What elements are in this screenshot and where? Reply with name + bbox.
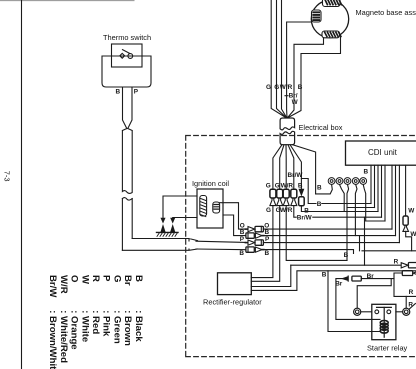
run B from chain5 branch to CDI (301, 179, 316, 204)
run Br/W from chain4 to CDI (294, 206, 296, 218)
svg-text:: Orange: : Orange (69, 310, 80, 349)
svg-text:G: G (266, 182, 271, 189)
svg-text:Starter relay: Starter relay (367, 343, 408, 352)
Br chain left arrow (342, 277, 348, 281)
svg-text:P: P (134, 89, 139, 96)
svg-text:Br: Br (122, 275, 133, 286)
ground bar with hatching (157, 231, 179, 233)
W fuse at right edge (403, 216, 408, 225)
svg-text:B: B (298, 84, 303, 91)
Br chain fuse (352, 276, 361, 281)
P row connector: arrow and cylinder (245, 242, 247, 244)
svg-text:W: W (292, 99, 299, 106)
svg-text:G: G (111, 275, 122, 282)
wire from Br/W run down to R line (364, 217, 366, 265)
svg-text:R: R (90, 275, 101, 282)
starter relay box (372, 304, 396, 339)
P row wire to CDI (263, 242, 399, 244)
magneto bottom coil (322, 31, 340, 38)
svg-text:B: B (265, 229, 270, 236)
R fuse 2 right arrow (413, 271, 416, 276)
R fuse 2 (402, 271, 412, 276)
fuse chain 3 W/R : cylinder (283, 189, 289, 198)
svg-text:B: B (322, 272, 327, 279)
CDI output verticals (370, 165, 372, 203)
magneto wire 5 from bottom coil (288, 38, 324, 118)
link wire B row down to lower run (359, 236, 361, 251)
rectifier wire 3 (251, 265, 290, 286)
B row 2 wire to starter relay terminal (264, 250, 354, 254)
magneto top coil (323, 0, 341, 7)
svg-text:Br/W: Br/W (297, 215, 313, 222)
svg-text:B: B (116, 89, 121, 96)
B row connector: cylinder then arrow (246, 233, 254, 238)
fuse chain 2 bullet (277, 198, 283, 206)
ignition coil primary winding (200, 196, 207, 217)
svg-text:P: P (101, 275, 112, 282)
ignition coil secondary winding (213, 202, 220, 213)
bullet 5 stub down (363, 185, 366, 222)
wire P from cable to connector row (196, 241, 246, 242)
svg-text:: Red: : Red (90, 310, 101, 334)
R line to right edge connector (291, 264, 401, 266)
cable lower segment torn top (122, 198, 132, 201)
magneto wire 6 from bottom right (288, 35, 341, 118)
magneto wire 4 from left coil (287, 22, 312, 118)
svg-text:Magneto base assembly: Magneto base assembly (356, 8, 416, 17)
electrical box dashed boundary (186, 136, 416, 357)
B row 2 connector: cylinder then arrow (246, 247, 254, 252)
relay terminal 1 (ring) (354, 308, 361, 315)
electrical box connector upper half (280, 118, 295, 130)
svg-text:R: R (394, 258, 399, 265)
thermo switch blade (123, 50, 130, 54)
svg-text:B: B (364, 169, 369, 176)
svg-text:O: O (69, 275, 80, 283)
relay contact right (387, 310, 391, 314)
relay coil (380, 321, 388, 334)
svg-text:: White/Red: : White/Red (58, 310, 69, 363)
magneto wire 1 (271, 0, 286, 118)
rectifier wire 1 (251, 206, 273, 278)
terminal 1 stub to relay box (361, 311, 372, 313)
run from bullet5 to CDI (366, 220, 385, 222)
B row wire to CDI (264, 235, 396, 237)
run from bullet3 to CDI (347, 207, 375, 209)
svg-text:B: B (344, 252, 349, 259)
svg-text:W: W (79, 275, 90, 285)
svg-text:: Pink: : Pink (101, 310, 112, 337)
terminal 2 stub to relay box (396, 311, 403, 313)
Br wire left to relay (336, 279, 380, 320)
svg-text:W/R: W/R (280, 84, 293, 91)
svg-text:Br/W: Br/W (47, 275, 58, 298)
svg-text:: Black: : Black (133, 310, 144, 342)
page left border line (21, 0, 23, 369)
ground arrow 2 down (171, 218, 174, 222)
svg-text:P: P (240, 236, 245, 243)
svg-text:P: P (265, 236, 270, 243)
electrical box connector lower half (280, 131, 295, 144)
svg-text:7-3: 7-3 (3, 171, 12, 182)
relay terminal 2 (ring) (403, 308, 410, 315)
magneto wire 2 (277, 0, 287, 118)
svg-text:B: B (240, 229, 245, 236)
chain 5 cylinder (299, 197, 305, 206)
svg-text:B: B (298, 182, 303, 189)
svg-text:: Brown/White: : Brown/White (47, 310, 58, 369)
chain 5 Br/W : arrow (299, 189, 304, 195)
fuse chain 4 bullet (291, 198, 297, 206)
bullet terminal circles row (328, 178, 366, 185)
wire B from connector to bullet 1 (316, 185, 333, 194)
wire B from cable to connector row (196, 248, 246, 251)
terminal 2 blade (409, 304, 416, 310)
thermo switch inner box (112, 44, 143, 67)
relay terminal 2 stub up (405, 296, 407, 308)
svg-text:B: B (265, 250, 270, 257)
fuse chain 2 G : cylinder (277, 189, 283, 198)
svg-text:B: B (317, 201, 322, 208)
svg-text:B: B (133, 275, 144, 282)
svg-text:W/R: W/R (58, 275, 69, 294)
run B from chain5 bottom to CDI (301, 206, 378, 212)
wire P from thermo switch (128, 87, 132, 129)
svg-text:Br/W: Br/W (288, 172, 304, 179)
Br wire right to R fuse 2 (361, 273, 402, 279)
bullet 3 stub down long vertical (347, 185, 349, 261)
wire B from thermo switch (123, 87, 127, 129)
relay contact bar (377, 306, 392, 308)
O row wire to CDI (263, 228, 392, 230)
fuse chain 1 bullet (270, 198, 276, 206)
W/R chain down and across to R connector (286, 206, 347, 261)
svg-text:G: G (266, 207, 271, 214)
svg-text:: White: : White (79, 310, 90, 342)
wire label Br/W with tick (285, 95, 288, 97)
rectifier wire 4 to relay circuit (251, 271, 416, 291)
ground wire 2 from ignition coil (173, 217, 197, 220)
magneto left coil (312, 10, 322, 22)
svg-text:Thermo switch: Thermo switch (103, 33, 151, 42)
ignition coil box (197, 189, 223, 228)
svg-text:G: G (274, 84, 279, 91)
wire B from ignition coil to B connector (223, 215, 246, 236)
magneto wire 3 (282, 0, 287, 118)
svg-text:Electrical box: Electrical box (299, 123, 343, 132)
svg-text:Ignition coil: Ignition coil (192, 179, 229, 188)
svg-text:G: G (275, 182, 280, 189)
relay contact left (375, 310, 379, 314)
bullet 4 stub down (355, 185, 357, 236)
svg-text:: Green: : Green (111, 310, 122, 344)
fuse chain 1 G : cylinder (270, 189, 276, 198)
thermo switch contact right (128, 54, 133, 59)
fan wires from connector to fuse chains (273, 145, 282, 190)
svg-text:W/R: W/R (281, 182, 294, 189)
svg-text:W: W (410, 231, 416, 238)
O row connector: arrow and cylinder (245, 228, 247, 230)
svg-text:B: B (239, 250, 244, 257)
branch down to relay coil (328, 271, 380, 332)
svg-text:Rectifier-regulator: Rectifier-regulator (203, 298, 262, 307)
bullet 2 stub down (340, 185, 345, 212)
rectifier wire 2 (251, 206, 279, 282)
svg-text:: Brown: : Brown (122, 310, 133, 346)
wire O from ignition coil to O connector (220, 203, 246, 229)
cable lower segment and elbow to horizontal (122, 199, 132, 251)
ground pin arrow 2 up (171, 226, 175, 232)
cable from thermo switch (upper segment with torn end) (122, 129, 132, 194)
R connector chain right edge: arrow (401, 263, 408, 268)
wire to right edge lower (362, 250, 416, 252)
cable horizontal run (122, 239, 197, 251)
svg-text:R: R (409, 289, 414, 296)
rectifier-regulator box (218, 273, 252, 295)
svg-text:W: W (408, 207, 415, 214)
W wire corner to lower right (406, 231, 412, 250)
ground pin arrow 1 up (161, 226, 165, 232)
svg-text:CDI unit: CDI unit (368, 148, 398, 157)
svg-text:G: G (266, 84, 271, 91)
ground wire from ignition coil top-left (163, 196, 197, 218)
W bullet connector (403, 225, 409, 231)
R chain fuse (408, 263, 416, 268)
CDI unit box (346, 141, 416, 165)
thermo switch outer housing (102, 56, 151, 87)
fuse chain 3 bullet (283, 198, 289, 206)
svg-text:B: B (317, 184, 322, 191)
relay plunger stem (383, 307, 385, 337)
wire from Br run down to relay terminal link (357, 279, 391, 309)
fuse chain 4 B : cylinder (291, 189, 297, 198)
magneto base assembly circle (311, 0, 348, 37)
wire down right to edge (394, 279, 416, 297)
ground arrow 1 down (161, 218, 164, 222)
thermo switch contact left (120, 53, 125, 58)
scan artifact top edge (0, 0, 134, 2)
